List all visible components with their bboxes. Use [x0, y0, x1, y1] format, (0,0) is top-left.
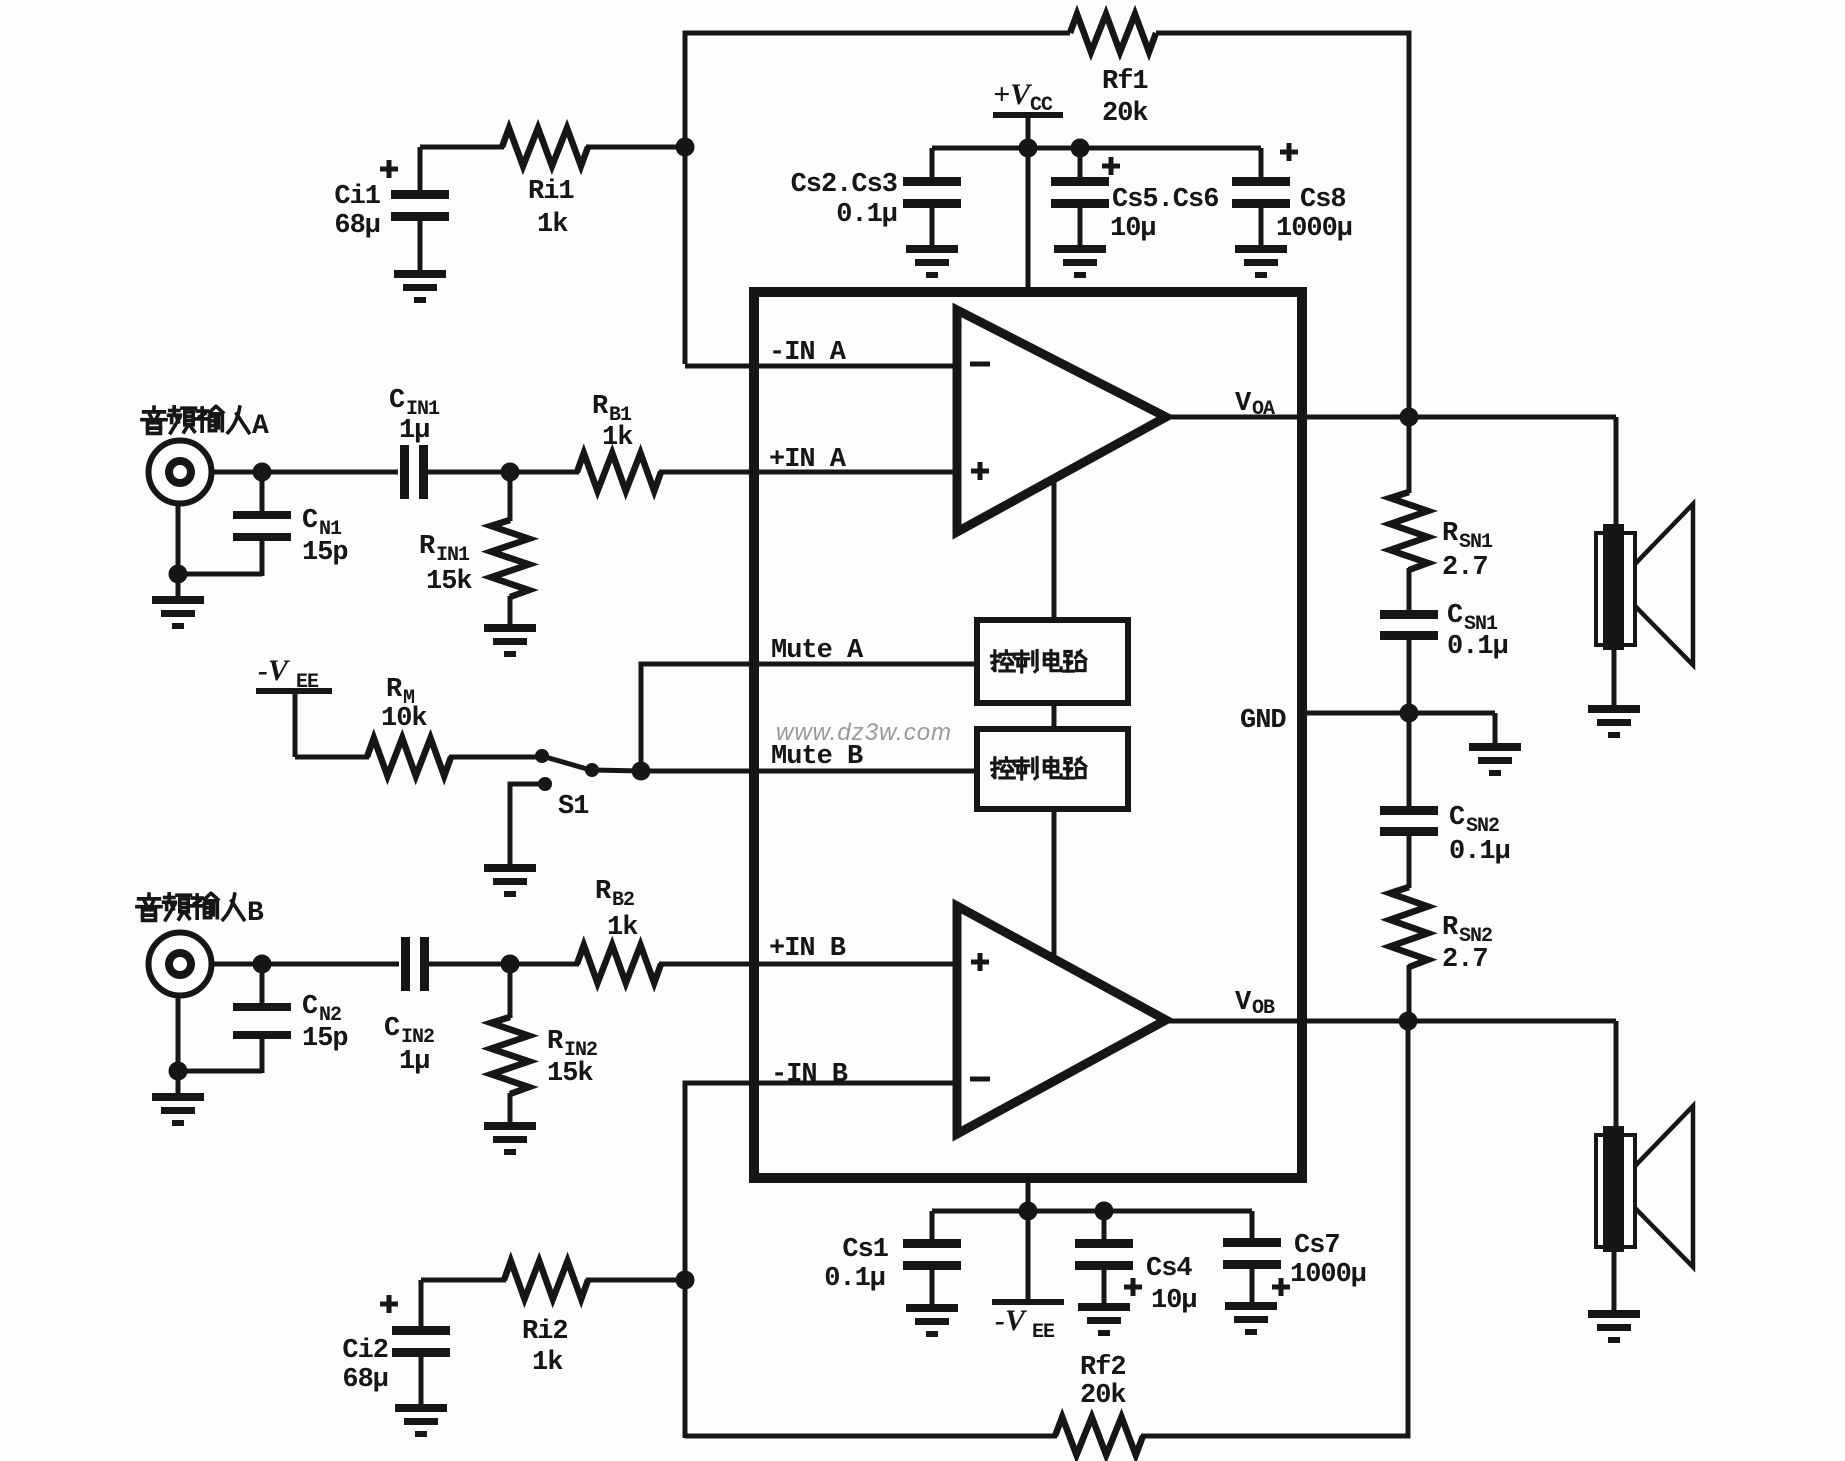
resistor Ri2 1k: [504, 1261, 588, 1378]
ground: [1588, 1310, 1640, 1343]
wire feedback A left+top: [685, 33, 1070, 364]
ground: [152, 1093, 204, 1126]
wire: [1612, 1250, 1617, 1312]
svg-text:-IN A: -IN A: [769, 338, 847, 368]
ground: [1054, 245, 1106, 278]
svg-text:CC: CC: [1030, 94, 1053, 117]
wire: [1614, 1021, 1619, 1130]
svg-text:68µ: 68µ: [334, 211, 380, 241]
svg-text:-V: -V: [995, 1304, 1028, 1337]
svg-text:0.1µ: 0.1µ: [1447, 632, 1508, 662]
svg-text:B: B: [247, 898, 264, 929]
node: [253, 955, 272, 974]
capacitor Cs2.Cs3 0.1u: [791, 148, 961, 247]
svg-text:SN2: SN2: [1466, 815, 1499, 838]
svg-text:1000µ: 1000µ: [1290, 1260, 1366, 1290]
svg-text:15k: 15k: [426, 567, 472, 597]
wire: [1141, 1021, 1408, 1436]
wire: [1614, 417, 1619, 528]
svg-text:68µ: 68µ: [342, 1365, 388, 1395]
svg-text:Cs8: Cs8: [1300, 185, 1346, 215]
svg-text:www.dz3w.com: www.dz3w.com: [776, 719, 952, 746]
power +Vcc: [993, 78, 1063, 292]
pin label -IN B: [771, 1060, 848, 1090]
wire: [295, 755, 369, 760]
wire: [420, 145, 504, 150]
RCA jack B: [149, 933, 212, 996]
capacitor Cs1 0.1u: [824, 1211, 961, 1306]
resistor Rf2 20k: [1055, 1353, 1143, 1455]
svg-text:1k: 1k: [607, 913, 638, 943]
IC box: [754, 292, 1302, 1178]
svg-text:C: C: [389, 386, 405, 416]
watermark: [776, 719, 952, 746]
wire GND pin: [1302, 711, 1495, 716]
ground: [1235, 245, 1287, 278]
svg-text:1µ: 1µ: [399, 416, 429, 446]
svg-text:Ri1: Ri1: [528, 177, 574, 207]
svg-text:+V: +V: [993, 78, 1033, 111]
power -Vee bottom: [992, 1211, 1064, 1344]
wire control link 1: [1052, 478, 1057, 622]
capacitor Cs7 1000u: [1223, 1211, 1366, 1304]
wire: [211, 962, 399, 967]
svg-text:C: C: [1447, 601, 1463, 631]
node: [1019, 139, 1038, 158]
svg-text:R: R: [595, 877, 612, 907]
wire: [449, 755, 542, 760]
svg-text:Ri2: Ri2: [522, 1317, 568, 1347]
wire: [1612, 648, 1617, 707]
node: [632, 762, 651, 781]
op-amp U1A: [957, 310, 1166, 532]
svg-text:Ci1: Ci1: [334, 182, 380, 212]
wire Mute A: [641, 664, 977, 771]
resistor RIN2 15k: [491, 964, 597, 1124]
svg-text:Mute B: Mute B: [771, 742, 863, 772]
wire: [429, 962, 579, 967]
svg-text:20k: 20k: [1102, 99, 1148, 129]
resistor Rf1 20k: [1070, 14, 1156, 129]
svg-text:20k: 20k: [1080, 1381, 1126, 1411]
svg-text:Cs7: Cs7: [1294, 1231, 1340, 1261]
control box 1: [977, 620, 1128, 703]
node: [676, 1271, 695, 1290]
ground: [395, 1404, 447, 1437]
svg-text:10k: 10k: [381, 704, 427, 734]
svg-text:R: R: [386, 675, 403, 705]
svg-text:Rf1: Rf1: [1102, 67, 1148, 97]
svg-text:0.1µ: 0.1µ: [824, 1264, 885, 1294]
wire control link 3: [1052, 809, 1057, 960]
resistor RB1 1k: [577, 392, 661, 491]
svg-text:EE: EE: [296, 671, 319, 694]
svg-text:1k: 1k: [532, 1348, 563, 1378]
wire bottom feedback B: [685, 1434, 1057, 1439]
node: [1071, 139, 1090, 158]
wire: [421, 1278, 506, 1283]
svg-text:1µ: 1µ: [399, 1047, 429, 1077]
control box 2: [977, 729, 1128, 809]
label audio input B: [137, 894, 264, 929]
capacitor CN2 15p: [178, 964, 348, 1073]
svg-text:R: R: [1442, 519, 1459, 549]
svg-text:R: R: [547, 1027, 564, 1057]
node: [1400, 704, 1419, 723]
wire VOB: [1166, 1019, 1616, 1024]
ground: [484, 624, 536, 657]
svg-text:C: C: [302, 506, 318, 536]
resistor RIN1 15k: [419, 472, 529, 626]
svg-text:10µ: 10µ: [1110, 214, 1156, 244]
wire -Vee pin: [1026, 1178, 1031, 1211]
pin label VOA: [1235, 389, 1275, 421]
wire: [428, 470, 579, 475]
wire: [1493, 713, 1498, 745]
svg-text:C: C: [302, 992, 318, 1022]
wire: [659, 962, 953, 967]
svg-text:EE: EE: [1032, 1321, 1055, 1344]
node: [1400, 408, 1419, 427]
svg-text:S1: S1: [558, 792, 589, 822]
svg-text:R: R: [1442, 913, 1459, 943]
wire Mute B: [641, 769, 977, 774]
svg-text:1k: 1k: [602, 423, 633, 453]
node junction x685: [676, 138, 695, 157]
node: [1019, 1202, 1038, 1221]
power -Vee left: [256, 654, 332, 757]
svg-text:15p: 15p: [302, 538, 348, 568]
svg-text:-V: -V: [258, 654, 291, 687]
wire VOA: [1166, 415, 1616, 420]
svg-text:Cs5.Cs6: Cs5.Cs6: [1112, 185, 1218, 215]
ground: [906, 1304, 958, 1337]
speaker A: [1596, 504, 1693, 665]
svg-text:A: A: [252, 411, 269, 442]
wire RCA B shell: [176, 995, 181, 1096]
resistor RSN2 2.7: [1390, 887, 1492, 1023]
svg-text:IN2: IN2: [401, 1026, 434, 1049]
capacitor Ci2 68u: [342, 1280, 450, 1406]
svg-text:0.1µ: 0.1µ: [1449, 837, 1510, 867]
capacitor Ci1 68u: [334, 147, 449, 272]
ground: [1078, 1303, 1130, 1336]
capacitor CSN2 0.1u: [1380, 713, 1510, 888]
wire: [586, 145, 687, 150]
wire Vcc rail: [932, 146, 1261, 151]
svg-text:Cs4: Cs4: [1146, 1254, 1192, 1284]
svg-text:2.7: 2.7: [1442, 553, 1488, 583]
capacitor CSN1 0.1u: [1380, 601, 1508, 715]
svg-text:1k: 1k: [537, 210, 568, 240]
wire -IN A: [685, 364, 953, 369]
ground: [1588, 705, 1640, 738]
wire: [659, 470, 953, 475]
ground: [1469, 743, 1521, 776]
pin label GND: [1240, 706, 1286, 736]
ground: [394, 270, 446, 303]
wire: [211, 470, 398, 475]
resistor RSN1 2.7: [1390, 417, 1493, 612]
wire RCA A shell: [176, 503, 181, 599]
svg-text:Cs2.Cs3: Cs2.Cs3: [791, 170, 897, 200]
node: [501, 955, 520, 974]
node: [169, 1062, 188, 1081]
svg-text:B2: B2: [612, 889, 634, 912]
svg-text:15p: 15p: [302, 1024, 348, 1054]
capacitor Cs8 1000u: [1232, 143, 1352, 247]
ground: [484, 864, 536, 897]
capacitor Cs5.Cs6 10u: [1051, 148, 1218, 247]
capacitor Cs4 10u: [1075, 1211, 1197, 1316]
capacitor CN1 15p: [178, 472, 348, 576]
svg-text:C: C: [384, 1014, 400, 1044]
svg-text:1000µ: 1000µ: [1276, 214, 1352, 244]
svg-text:V: V: [1235, 988, 1252, 1018]
svg-text:Ci2: Ci2: [342, 1336, 388, 1366]
pin label VOB: [1235, 988, 1275, 1020]
RCA jack A: [149, 441, 212, 504]
pin label Mute A: [771, 636, 864, 666]
wire Vee rail: [932, 1209, 1252, 1214]
node: [501, 463, 520, 482]
ground: [906, 245, 958, 278]
pin label +IN A: [769, 445, 847, 475]
svg-text:Cs1: Cs1: [842, 1235, 888, 1265]
switch S1: [510, 749, 643, 866]
wire feedback A right: [1156, 33, 1409, 417]
node: [253, 463, 272, 482]
wire -IN B: [685, 1083, 953, 1438]
op-amp U1B: [957, 906, 1166, 1134]
pin label -IN A: [769, 338, 847, 368]
svg-text:R: R: [592, 392, 609, 422]
label audio input A: [142, 407, 269, 442]
svg-text:OB: OB: [1252, 997, 1275, 1020]
svg-text:GND: GND: [1240, 706, 1286, 736]
resistor RB2 1k: [577, 877, 661, 983]
svg-text:IN1: IN1: [436, 544, 470, 567]
resistor Ri1 1k: [502, 128, 588, 240]
resistor RM 10k: [367, 675, 451, 776]
ground: [484, 1122, 536, 1155]
wire: [586, 1278, 687, 1283]
capacitor CIN2 1u: [384, 937, 434, 1077]
node: [1095, 1202, 1114, 1221]
svg-text:+IN B: +IN B: [769, 934, 846, 964]
svg-text:R: R: [419, 532, 436, 562]
pin label +IN B: [769, 934, 846, 964]
capacitor CIN1 1u: [389, 386, 440, 499]
ground: [152, 596, 204, 629]
speaker B: [1596, 1106, 1693, 1267]
node: [169, 565, 188, 584]
node: [1399, 1012, 1418, 1031]
svg-text:10µ: 10µ: [1151, 1286, 1197, 1316]
svg-text:2.7: 2.7: [1442, 945, 1488, 975]
svg-text:SN1: SN1: [1459, 531, 1493, 554]
svg-text:15k: 15k: [547, 1059, 593, 1089]
ground: [1225, 1302, 1277, 1335]
pin label Mute B: [771, 742, 863, 772]
svg-text:C: C: [1449, 803, 1465, 833]
svg-text:Rf2: Rf2: [1080, 1353, 1126, 1383]
wire control link 2: [1052, 703, 1057, 729]
svg-text:0.1µ: 0.1µ: [836, 200, 897, 230]
